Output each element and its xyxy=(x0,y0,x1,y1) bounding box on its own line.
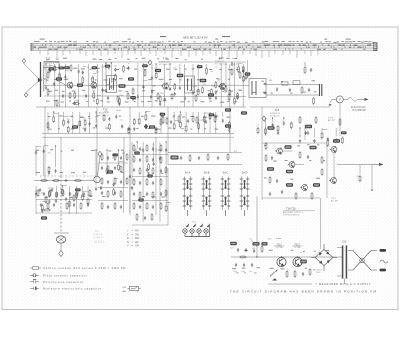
wire r1e46 stub xyxy=(247,60,249,72)
svg-text:THE CIRCUIT DIAGRAM HAS BE: THE CIRCUIT DIAGRAM HAS BEEN DRAWN IN PO… xyxy=(230,290,377,294)
wire r2a55 vertical xyxy=(89,112,91,134)
capacitor C96 xyxy=(43,192,45,196)
value label r1b14 xyxy=(105,65,111,68)
resistor R128 xyxy=(174,83,176,91)
bus top sparse labels xyxy=(40,39,351,40)
wire r3c110 vertical xyxy=(129,150,131,213)
wire r1d42 vertical xyxy=(242,64,244,107)
svg-text:AC 127: AC 127 xyxy=(328,119,336,122)
value label r3c107 xyxy=(112,153,118,156)
wire r2d82 stub xyxy=(283,118,285,120)
antenna lead lower xyxy=(26,81,39,92)
wire r1a3 link xyxy=(55,62,59,64)
resistor R73 xyxy=(133,155,135,163)
svg-text:68: 68 xyxy=(282,121,284,123)
t16 wire b xyxy=(339,103,341,136)
legend resistor symbol xyxy=(30,267,41,269)
value label osc4 xyxy=(138,199,144,202)
transistor TS7 AC125 xyxy=(330,146,337,153)
bus right end bracket xyxy=(374,43,378,51)
capacitor C79 xyxy=(152,181,154,185)
wire r2e84 stub xyxy=(299,128,301,137)
osc h link a xyxy=(132,154,168,156)
bus drop wires xyxy=(40,51,318,59)
detector diode D1 xyxy=(263,83,267,85)
trunk vertical k xyxy=(261,107,263,140)
trimmer capacitor C25 xyxy=(51,188,53,192)
capacitor C154 xyxy=(84,128,86,132)
resistor R19 xyxy=(299,116,301,124)
resistor R4 xyxy=(93,92,95,100)
value label osc xyxy=(41,216,47,219)
capacitor C123 xyxy=(151,90,153,94)
wire r2e89 stub xyxy=(335,128,337,136)
svg-text:0,1: 0,1 xyxy=(121,120,124,122)
capacitor C191 xyxy=(35,150,37,154)
capacitor C126 xyxy=(164,97,166,101)
wire r3d111 stub xyxy=(131,142,133,184)
svg-text:120: 120 xyxy=(101,66,104,68)
resistor R183 xyxy=(290,121,292,129)
resistor R217 xyxy=(165,205,167,213)
value label r2e90 xyxy=(341,131,347,134)
capacitor C104 xyxy=(170,120,172,124)
capacitor C125 xyxy=(159,102,161,106)
resistor R88 xyxy=(136,213,138,221)
svg-text:0,1: 0,1 xyxy=(271,122,274,124)
voltmeter squiggle lead xyxy=(343,97,361,101)
capacitor C83 xyxy=(139,205,141,209)
resistor R54 xyxy=(299,151,301,159)
value label 101 xyxy=(262,242,268,245)
capacitor C205 xyxy=(100,186,102,190)
trimmer capacitor C24 xyxy=(39,188,41,192)
osc column wire xyxy=(155,148,157,215)
wire r2c70 stub xyxy=(185,112,187,125)
psu junction c xyxy=(297,256,298,257)
svg-text:68: 68 xyxy=(87,67,89,69)
antenna lead upper xyxy=(24,64,39,79)
resistor R13 xyxy=(209,93,211,101)
t16 wire xyxy=(304,125,306,140)
capacitor C43 xyxy=(235,263,237,267)
wire r2d80 stub xyxy=(272,118,274,121)
resistor R82 xyxy=(139,191,141,199)
wire r1d41 stub xyxy=(238,64,240,65)
wire r1b22 link xyxy=(143,80,147,82)
psu junction xyxy=(256,256,257,257)
mid h link b xyxy=(98,187,128,189)
resistor R207 xyxy=(113,188,115,196)
capacitor C89 xyxy=(114,166,116,170)
resistor R125 xyxy=(159,95,161,103)
wire r3b103 stub xyxy=(87,186,89,198)
voltmeter probe lead left xyxy=(330,99,337,103)
resistor R5 xyxy=(56,99,58,107)
det supply wire xyxy=(304,62,306,66)
resistor R135 xyxy=(211,88,213,96)
wire r2a52 vertical xyxy=(72,112,74,134)
svg-text:T.S.B: T.S.B xyxy=(328,118,334,120)
value label 470 xyxy=(200,79,207,82)
capacitor C101 xyxy=(53,203,55,207)
capacitor C113 xyxy=(101,88,103,92)
capacitor C48 xyxy=(245,248,247,252)
svg-text:IV: IV xyxy=(127,241,130,244)
wire r1d37 vertical xyxy=(220,64,222,107)
junction r3b99 xyxy=(62,185,63,186)
resistor R153 xyxy=(79,120,81,128)
junction r1c24 xyxy=(155,63,156,64)
output transistor TS13 OC79 xyxy=(293,257,302,266)
mid h link c xyxy=(98,200,128,202)
value label 3k9 xyxy=(285,145,292,148)
resistor R76 xyxy=(139,167,141,175)
supply rail bus band top lines xyxy=(31,43,377,45)
capacitor C117 xyxy=(118,102,120,106)
resistor R31 xyxy=(40,180,48,182)
value label r2c66 xyxy=(160,113,166,116)
ratio detector transformer S6 outline xyxy=(249,79,266,98)
resistor R92 xyxy=(126,153,128,161)
TS12 label underline xyxy=(274,245,303,247)
filter box 2 xyxy=(293,81,300,84)
annotation speck row row1 b xyxy=(48,68,240,70)
capacitor C115 xyxy=(110,85,112,89)
wire r1c25 link xyxy=(160,92,164,94)
resistor R117 xyxy=(118,97,120,105)
annotation speck row audio a xyxy=(264,144,319,146)
bus tick marks xyxy=(35,44,371,50)
wire r2e87 stub xyxy=(321,128,323,132)
resistor R7 xyxy=(117,95,119,103)
resistor R206 xyxy=(106,167,108,175)
pilot lamps group xyxy=(183,225,210,237)
annotation speck row audio b xyxy=(273,160,325,162)
value label 121 b xyxy=(286,170,293,173)
wire r3a91 link xyxy=(36,145,41,147)
aerial coil tap wire xyxy=(43,78,47,80)
annotation speck row agc b xyxy=(48,127,231,129)
svg-text:Polystyrene capacitor: Polystyrene capacitor xyxy=(43,280,84,284)
capacitor C194 xyxy=(54,169,56,173)
trunk vertical f xyxy=(155,137,157,152)
osc column wire2 xyxy=(129,148,131,215)
capacitor C146 xyxy=(247,73,249,77)
value label 561 xyxy=(130,96,136,99)
resistor R1 xyxy=(47,71,49,79)
svg-text:SA-D: SA-D xyxy=(242,172,248,175)
resistor R110 xyxy=(162,116,164,124)
row2 rail b xyxy=(168,164,242,166)
capacitor C184 xyxy=(299,139,301,143)
ferrite rod aerial coil L1 xyxy=(40,62,42,97)
value label 1k b xyxy=(313,183,320,186)
wire r2c74 vertical xyxy=(209,112,211,134)
wire r1b22 vertical xyxy=(142,63,144,107)
resistor R173 xyxy=(203,115,205,123)
switch bank SA-D contacts xyxy=(240,177,250,217)
junction r2d82 xyxy=(283,117,284,118)
capacitor C90 xyxy=(107,180,109,184)
capacitor C41 xyxy=(276,179,278,183)
row1 signal rail xyxy=(44,84,249,86)
row1 ground rail xyxy=(36,106,246,108)
wire r1c24 stub xyxy=(155,64,157,72)
junction r3d112 xyxy=(137,141,138,142)
resistor R188 xyxy=(327,139,329,147)
svg-text:AC 187: AC 187 xyxy=(331,200,339,203)
wire r1a12 stub xyxy=(96,64,98,98)
svg-text:68: 68 xyxy=(84,118,86,120)
resistor R16 xyxy=(301,86,303,94)
capacitor C158 xyxy=(108,117,110,121)
value label 121 xyxy=(119,84,126,87)
capacitor C99 xyxy=(83,192,85,196)
junction r2e84 xyxy=(299,127,300,128)
detector out wire top xyxy=(266,84,320,86)
resistor R83 xyxy=(152,191,154,199)
wire r1e44 link xyxy=(238,89,242,91)
resistor R12 xyxy=(195,94,197,102)
resistor R84 xyxy=(165,189,167,197)
value label 10k b xyxy=(267,167,274,170)
value label B30C xyxy=(300,260,307,264)
value label r1b22 xyxy=(142,64,148,67)
S4 winding bar2 xyxy=(191,79,193,91)
resistor R9 xyxy=(144,69,146,77)
capacitor C95 xyxy=(120,205,122,209)
resistor R58 xyxy=(295,192,297,200)
resistor R177 xyxy=(228,121,230,129)
value label 4k7 xyxy=(149,125,155,128)
wire r1c27 stub xyxy=(169,64,171,85)
svg-text:AEG 807 U12 4,5V: AEG 807 U12 4,5V xyxy=(183,36,208,40)
svg-text:120: 120 xyxy=(179,115,182,117)
psu junction b xyxy=(281,256,282,257)
AM test point diamond xyxy=(262,116,266,121)
wire r3c104 stub xyxy=(95,150,97,185)
wire r2c69 stub xyxy=(179,112,181,121)
value label 151 xyxy=(305,125,312,128)
resistor R107 xyxy=(74,91,76,99)
capacitor C161 xyxy=(128,127,130,131)
wire r2a53 link xyxy=(80,117,84,119)
capacitor C181 xyxy=(277,131,279,135)
left h link b xyxy=(36,212,92,214)
wire r3b97 link xyxy=(49,187,54,189)
wire r1d31 link xyxy=(193,86,197,88)
svg-text:68: 68 xyxy=(264,121,266,123)
mains plug pin upper xyxy=(380,249,387,252)
electrolytic capacitor C14 bars xyxy=(320,84,322,96)
value label 2k2 b xyxy=(107,170,113,173)
junction r1a1 xyxy=(45,63,46,64)
svg-text:1k8: 1k8 xyxy=(47,152,50,154)
svg-text:120: 120 xyxy=(122,153,125,155)
resistor R60 xyxy=(239,256,247,258)
wire r3d112 stub xyxy=(136,142,138,149)
capacitor C175 xyxy=(215,115,217,119)
transistor TS10 AC126 xyxy=(288,161,295,168)
trunk vertical a xyxy=(44,107,46,181)
wire r1a9 link xyxy=(83,66,87,68)
resistor R104 xyxy=(59,72,61,80)
capacitor C23 xyxy=(64,179,68,181)
wire r2a48 stub xyxy=(53,112,55,115)
junction r3d117 xyxy=(165,141,166,142)
value label 2k2 xyxy=(56,77,62,80)
wire r3b100 link xyxy=(69,197,74,199)
resistor R58b xyxy=(311,192,313,200)
junction r2c69 xyxy=(180,111,181,112)
capacitor C44 xyxy=(243,263,245,267)
mixer injection circle xyxy=(94,176,100,182)
wire r1c23 link xyxy=(152,85,156,87)
capacitor C6 xyxy=(151,76,153,80)
svg-text:10k: 10k xyxy=(114,65,117,67)
svg-text:10k: 10k xyxy=(67,119,70,121)
speaker feed wire xyxy=(230,164,257,166)
capacitor C74 xyxy=(152,158,154,162)
junction r2b64 xyxy=(145,111,146,112)
feedback wire arrow xyxy=(379,163,384,166)
junction r3a94 xyxy=(55,145,56,146)
capacitor C70 xyxy=(139,147,141,151)
band position list xyxy=(127,230,140,248)
resistor R132 xyxy=(197,88,199,96)
capacitor C162 xyxy=(133,127,135,131)
value label r1a5 xyxy=(64,66,70,69)
capacitor C45 xyxy=(251,263,253,267)
resistor R35 xyxy=(43,209,51,211)
resistor R89 xyxy=(151,213,153,221)
capacitor C15 xyxy=(310,68,312,72)
resistor R3 xyxy=(69,92,71,100)
value label r1d32 xyxy=(197,65,203,68)
capacitor C49 xyxy=(253,249,255,253)
resistor R116 xyxy=(114,73,116,81)
psu upper tick xyxy=(276,238,281,240)
value label 331 xyxy=(225,124,231,127)
resistor R196 xyxy=(41,204,43,212)
resistor R59 12k xyxy=(359,175,361,183)
wire r1a11 link xyxy=(93,73,97,75)
value label 39k xyxy=(128,77,134,80)
wire r1a10 vertical xyxy=(88,64,90,107)
wire r3d113 vertical xyxy=(142,142,144,222)
wire r1b14 stub xyxy=(105,63,107,87)
resistor R193 xyxy=(48,166,50,174)
wire r1a2 stub xyxy=(49,64,51,67)
wire r3b99 link xyxy=(62,185,67,187)
resistor R172 xyxy=(198,122,200,130)
voltmeter probe arrow xyxy=(329,104,332,106)
junction r3c106 xyxy=(106,149,107,150)
resistor R158 xyxy=(108,123,110,131)
capacitor C7 xyxy=(150,95,152,99)
resistor R81 xyxy=(160,178,162,186)
capacitor C214 xyxy=(147,172,149,176)
mains plug pin lower xyxy=(380,269,387,272)
svg-text:VOLTMETER: VOLTMETER xyxy=(352,110,366,112)
capacitor C26 xyxy=(55,199,57,203)
resistor R174 xyxy=(209,112,211,120)
capacitor C102 xyxy=(49,69,51,73)
capacitor C47 xyxy=(237,248,239,252)
audio rail wire v2 xyxy=(326,142,328,198)
capacitor C215 xyxy=(153,162,155,166)
capacitor C42 xyxy=(269,192,271,196)
resistor R53 xyxy=(265,154,267,162)
tuning wire main xyxy=(34,180,94,182)
row1 ground rail b xyxy=(250,106,330,108)
osc h link d xyxy=(132,224,168,226)
resistor R90 xyxy=(101,153,103,161)
value label 8k2 xyxy=(77,84,83,87)
svg-text:0,1: 0,1 xyxy=(81,72,84,74)
wire r2b57 link xyxy=(104,111,108,113)
resistor R100a xyxy=(101,202,103,210)
capacitor C156 xyxy=(95,124,97,128)
svg-text:2,2: 2,2 xyxy=(214,67,217,69)
wire r3a92 link xyxy=(44,144,49,146)
resistor R55 xyxy=(321,156,323,164)
wire r1b19 stub xyxy=(127,63,129,64)
wire r2b64 link xyxy=(146,110,150,112)
capacitor C188 xyxy=(327,137,329,141)
svg-text:AM: AM xyxy=(123,290,126,293)
svg-text:10k: 10k xyxy=(96,71,99,73)
junction r2a48 xyxy=(53,111,54,112)
capacitor C12 xyxy=(289,88,291,92)
transformer top lead xyxy=(337,247,342,249)
value label osc3 xyxy=(147,175,153,178)
capacitor C105 xyxy=(187,119,189,123)
capacitor C129 xyxy=(179,86,181,90)
svg-text:Plate ceramic capacitor: Plate ceramic capacitor xyxy=(43,273,87,277)
misc annotation ticks xyxy=(236,272,257,275)
resistor R97 xyxy=(126,177,128,185)
capacitor C144 xyxy=(236,95,238,99)
resistor R98 xyxy=(107,190,109,198)
svg-text:68: 68 xyxy=(173,117,175,119)
capacitor C189 xyxy=(335,138,337,142)
wire r1e43 link xyxy=(232,57,236,59)
resistor R14 xyxy=(228,93,230,101)
feedback drop wire xyxy=(371,164,373,190)
resistor R181 xyxy=(277,125,279,133)
capacitor C212 xyxy=(136,151,138,155)
wire r1a1 stub xyxy=(45,64,47,84)
resistor R106a xyxy=(89,189,91,197)
trunk vertical c xyxy=(96,107,98,176)
resistor R6 xyxy=(72,103,80,105)
svg-text:SA-C: SA-C xyxy=(223,172,229,175)
capacitor C192 xyxy=(43,149,45,153)
capacitor C76 xyxy=(146,168,148,172)
annotation speck row row1 d xyxy=(48,90,242,92)
amplifier caption underline xyxy=(283,210,315,212)
psu diag wire xyxy=(250,238,257,247)
resistor R94 xyxy=(120,165,122,173)
annotation speck row det b xyxy=(252,91,316,93)
legend ceramic cap symbol xyxy=(30,274,39,277)
svg-text:EO 7A02 O: EO 7A02 O xyxy=(159,63,170,66)
wire r2a53 vertical xyxy=(79,112,81,134)
resistor R148 xyxy=(53,115,55,123)
bus heading tick left xyxy=(160,36,166,37)
